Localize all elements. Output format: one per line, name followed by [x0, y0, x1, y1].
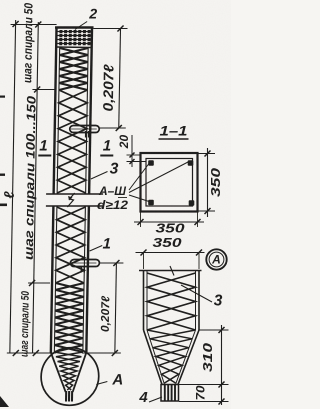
leader to label А [96, 382, 107, 385]
pile tip taper right [73, 353, 87, 393]
detail top break edge [139, 270, 202, 272]
longitudinal bar left (1) [57, 47, 60, 194]
cover dimension 20 [131, 135, 133, 167]
lifting loop upper [70, 126, 100, 133]
detail right wall [198, 271, 200, 331]
detail spiral 3 [147, 273, 196, 330]
label 1 bar callout [90, 246, 103, 252]
spiral zone pitch 50 bottom [54, 283, 84, 352]
break zigzag [67, 193, 74, 207]
shaft break line lower [46, 205, 103, 207]
dimension 350 below section [140, 212, 142, 228]
shaft break line upper [46, 193, 103, 195]
scan mark left edge 1 [0, 96, 5, 98]
tick divider pitch zone 2/3 [28, 282, 50, 284]
lifting loop lower [70, 260, 99, 267]
dimension 0,207ℓ top [119, 29, 121, 128]
detail marker circle А [206, 249, 226, 269]
detail callout circle A [41, 348, 100, 406]
longitudinal bar right (1) [86, 47, 89, 194]
label 3 detail [181, 285, 212, 302]
stirrup/spiral in section [146, 159, 193, 207]
detail taper right [178, 330, 199, 385]
scan mark left edge 2 [0, 204, 7, 207]
leader fan to corner bars [129, 164, 149, 191]
dimension line overall length ℓ [10, 20, 16, 353]
corner bars in section [148, 160, 154, 166]
section mark 1 left [38, 155, 51, 157]
section outline 350x350 [141, 153, 198, 212]
dimension line spiral pitch chain [33, 22, 39, 353]
label 2 mesh callout [75, 22, 87, 30]
pile right edge [89, 27, 92, 194]
label 4 detail [149, 397, 162, 402]
spiral zone pitch 50 top [59, 48, 88, 90]
reinforcement mesh 2 rows [57, 31, 91, 33]
detail tip bundle 4 [161, 385, 179, 402]
spiral in tapered tip [54, 352, 82, 390]
pile tip taper left [50, 353, 66, 393]
scan mark left edge mid [0, 174, 5, 176]
dimension 0,207ℓ bottom [115, 263, 117, 353]
spiral zone pitch 100-150 upper [57, 90, 87, 193]
detail taper left [144, 330, 163, 385]
label 3 spiral callout [91, 172, 108, 180]
pile top edge [55, 26, 94, 29]
dimension 310 [221, 325, 223, 405]
scan mark bottom left corner [0, 396, 9, 407]
dimension 350 right of section [198, 153, 216, 155]
spiral zone pitch 100-150 lower [56, 207, 86, 283]
extension line top [11, 24, 57, 26]
mesh zone bottom line [57, 46, 92, 49]
pile left edge [54, 27, 57, 194]
dimension 70 [179, 401, 229, 403]
extension line bottom [7, 352, 56, 354]
tip stub 4 [65, 391, 73, 402]
tick divider pitch zone 1/2 [32, 89, 56, 91]
detail left wall [143, 271, 145, 331]
section mark 1 right [100, 155, 113, 157]
